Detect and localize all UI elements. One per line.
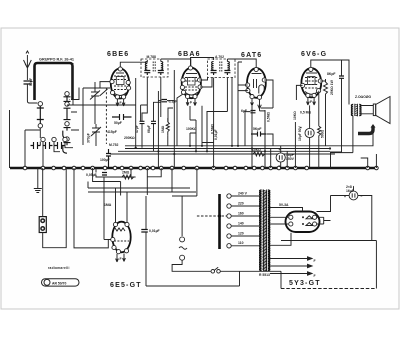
svg-text:0,01µF: 0,01µF [214,129,218,140]
wire IF1 bottoms down [147,77,161,117]
node trimmer T1 terminal [41,137,45,141]
wire IF2 bottoms down [214,78,228,143]
svg-text:0,5MΩ: 0,5MΩ [267,111,271,122]
svg-text:68µF: 68µF [147,125,151,133]
svg-text:5KpF: 5KpF [253,127,261,131]
output transformer T2 [351,104,361,116]
node terminal B3 [65,122,69,126]
capacitor B1 [64,97,71,102]
capacitor 50pF antenna [24,81,32,84]
main bus [10,167,377,170]
svg-text:160: 160 [238,212,244,216]
wire right B+ [317,217,331,224]
svg-text:5V-3A: 5V-3A [279,203,289,207]
svg-text:5Y3-GT: 5Y3-GT [289,280,321,287]
tube 6E5 V5 [111,222,131,254]
coil L1b [161,62,163,70]
wire bottom rail 6E5 box [146,272,240,287]
tube 6V6 V4 [301,67,323,97]
box 5Y3-GT [281,241,376,289]
svg-text:2MΩ: 2MΩ [122,171,130,175]
logo badge [42,279,80,286]
power transformer T1 core [264,190,267,272]
phono terminal P1 [180,237,185,242]
svg-text:10µF 50V: 10µF 50V [298,125,302,141]
speaker LS [360,97,390,124]
resistor 2M horizontal [122,175,136,179]
svg-text:220: 220 [238,202,244,206]
wire IF2 secondary to 6AT6 top [227,59,256,67]
svg-text:GRUPPO R.F. 26-41: GRUPPO R.F. 26-41 [39,58,74,62]
wire antenna to coil terminal [27,84,37,103]
node trimmer T2 terminal [52,137,56,141]
capacitor 0,1uF [162,100,168,102]
electrolytic 2x8uF [344,191,363,200]
capacitor 47pF vertical [140,121,145,123]
coil hook B4 [63,143,71,154]
capacitor ant coil [37,106,44,124]
filament arrows V2 [186,99,196,106]
svg-text:F: F [314,259,316,263]
electrolytic 16uF 350V cathode [300,126,314,138]
gang dashed line [105,88,107,144]
antenna ANT [24,51,32,80]
svg-text:6BE6: 6BE6 [107,51,129,58]
node terminal B4 [65,137,69,141]
svg-text:6V6-G: 6V6-G [301,51,327,58]
svg-text:50pF: 50pF [29,78,33,86]
capacitor 0,01uF 6E5 [141,230,148,233]
wire 6V6 plate to output transformer [311,60,349,104]
wire transformer to 5Y3 [270,208,303,274]
wire phono down [172,196,211,271]
capacitor 50uF [112,114,132,120]
wire osc section [83,82,110,146]
svg-text:100µF: 100µF [100,158,110,162]
svg-text:415pF: 415pF [107,130,117,134]
wire RF staple leg to B1 [69,99,71,102]
svg-text:370pF: 370pF [87,133,91,143]
coil L1a [145,62,147,70]
capacitor 0,05uF 6AT6 [251,111,256,113]
wire 0,01uF vertical [145,196,147,286]
svg-text:6AT6: 6AT6 [241,52,262,59]
power transformer T1 secondary [268,190,270,271]
electrolytic filter 16uF [276,148,285,168]
trimmer T1 [31,142,41,149]
wires below bus to bottom section [38,168,197,240]
core IF1 [153,62,155,73]
svg-text:AR 50/70: AR 50/70 [52,282,66,286]
junction dots on bus [23,166,378,170]
svg-text:F: F [120,257,122,261]
trimmer VC2 [100,89,108,96]
capacitor 0,05uF below bus [102,173,107,176]
wire thick staple RF group [35,63,73,100]
svg-text:0,01µF: 0,01µF [149,229,160,233]
IF transformer 1 M.788 box [141,55,168,77]
svg-text:10KΩ: 10KΩ [252,148,261,152]
node terminal B2 [65,102,69,106]
node terminal A1 [38,102,42,106]
svg-text:500Ω: 500Ω [321,129,325,138]
trimmer T2 [43,142,53,149]
filament arrows V4 [307,98,316,106]
svg-text:50µF: 50µF [114,121,122,125]
node terminal A2 [38,124,42,128]
filament arrows 5Y3 [283,257,312,275]
svg-text:Z.OΩOØO: Z.OΩOØO [355,95,372,99]
tube 6AT6 V3 [246,67,267,99]
svg-text:0,1µF: 0,1µF [169,100,178,104]
coil hook B3 [63,128,71,139]
svg-text:M.788: M.788 [147,55,157,59]
filament arrows V1 [116,99,125,106]
svg-text:6E5-GT: 6E5-GT [110,282,142,289]
tube 5Y3 V6 [286,212,320,233]
svg-text:R 5513: R 5513 [259,273,270,277]
svg-text:110: 110 [238,241,244,245]
wire B column verticals [67,88,79,131]
wire second U loop [74,168,108,248]
svg-text:1MΩ: 1MΩ [104,203,112,207]
filament arrows V3 [251,99,254,106]
mains taps [227,194,231,248]
wire left column down to bus [25,128,40,168]
wire 6BA6 plate to IF2 [191,58,214,66]
wire 6E5 left [108,239,110,241]
svg-text:25KΩ 1W: 25KΩ 1W [330,79,334,95]
trimmer T3 [55,142,65,149]
svg-text:1MΩ: 1MΩ [161,125,165,133]
wire trimmers to bus [43,142,73,168]
tube 6BA6 V2 [180,66,202,99]
junction selector bar [218,214,221,217]
svg-text:+: + [279,148,281,152]
wire 6E5 grid [116,188,128,222]
filament arrows V5 [116,254,126,263]
pickup squiggle [179,247,187,250]
resistor 10K [249,152,269,156]
svg-text:120: 120 [238,232,244,236]
IF transformer 2 A.702 box [208,55,236,78]
capacitor 5KpF [251,132,267,137]
phono terminal P2 [180,255,185,260]
mains switch SW [211,267,281,273]
variable capacitor gang section [83,82,110,146]
svg-text:16µF: 16µF [346,189,354,193]
core IF2 [220,62,222,73]
junction dots wire bundle [135,145,332,155]
svg-text:8KpF: 8KpF [327,72,335,76]
wires verticals top area to bundle and bus [10,62,377,168]
svg-text:200KΩ: 200KΩ [124,136,135,140]
coil B2 [64,108,71,119]
volume pot 0,5M [264,110,266,168]
svg-text:radiomarelli: radiomarelli [48,266,70,270]
resistor 25K 1W vertical [324,80,328,98]
resistor 1M vertical [166,118,169,136]
capacitor 100uF near bus [106,149,111,168]
field coil curved arrow [358,127,373,134]
capacitor 8KpF screen [339,76,344,78]
svg-text:M.752: M.752 [109,143,119,147]
svg-text:140: 140 [238,222,244,226]
svg-text:F: F [314,274,316,278]
thick mains selector bar [218,194,221,249]
AVC arrow V3 [258,99,262,109]
wire 5Y3 plate top [302,210,304,212]
capacitor 68pF vertical [151,121,156,123]
tap labels [238,192,248,246]
node trimmer T3 terminal [63,137,67,141]
trimmer VC1 [90,88,100,102]
svg-text:100KΩ: 100KΩ [186,127,197,131]
tube 6BE6 V1 [110,67,131,99]
svg-text:10KΩ: 10KΩ [293,111,297,120]
wire IF1 secondary top to 6BA6 [161,59,191,67]
wire bundle horizontal 4 lines [110,146,335,154]
svg-text:A.702: A.702 [215,55,224,59]
svg-text:6µF: 6µF [241,109,247,113]
svg-text:F: F [190,101,192,105]
svg-text:F: F [310,100,312,104]
power transformer T1 primary [260,190,262,271]
wire screen cap [341,60,343,152]
svg-text:240 V: 240 V [238,192,248,196]
wires electrolytic [317,186,372,240]
mains plug [39,217,46,233]
coil L2b [227,62,229,70]
svg-text:F: F [120,101,122,105]
wire 6BE6 plate to IF1 [120,60,147,67]
svg-text:6BA6: 6BA6 [178,51,201,58]
wire plug loop to bus [43,168,66,248]
coil L2a [212,62,214,70]
trimmer VC3 [91,124,101,138]
ground chassis [34,189,42,193]
node terminal B1 [65,92,69,96]
svg-text:0,05µF: 0,05µF [86,173,97,177]
tap wires [197,196,260,246]
resistor 500ohm cathode [318,123,321,139]
